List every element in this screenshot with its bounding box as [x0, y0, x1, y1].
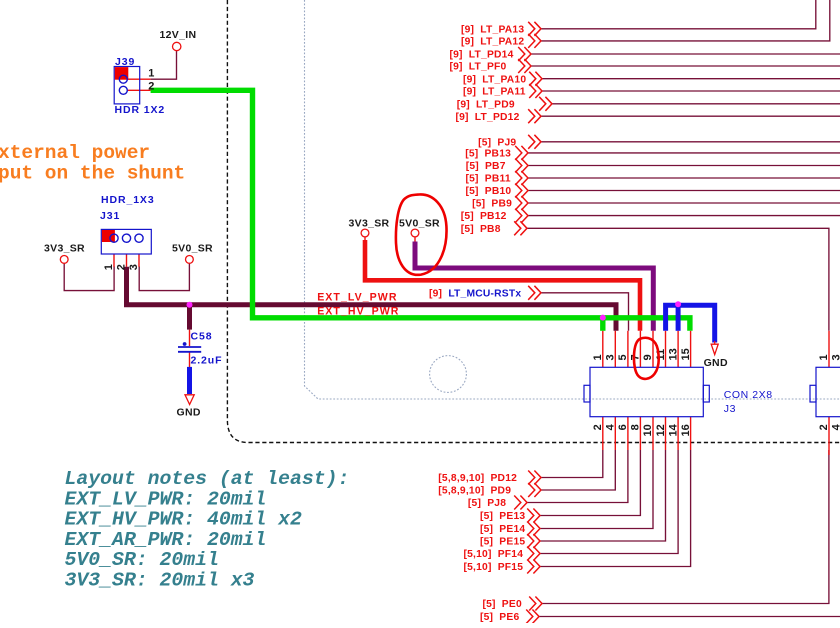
svg-text:J31: J31 — [100, 210, 120, 222]
svg-text:1: 1 — [148, 68, 154, 80]
svg-text:[9] LT_PD14: [9] LT_PD14 — [450, 50, 514, 61]
svg-text:10: 10 — [642, 424, 654, 436]
svg-text:put on the shunt: put on the shunt — [0, 163, 185, 185]
svg-text:15: 15 — [680, 348, 692, 360]
svg-text:[5] PE13: [5] PE13 — [480, 511, 525, 522]
svg-text:[9] LT_PA12: [9] LT_PA12 — [461, 37, 524, 48]
svg-text:7: 7 — [630, 354, 642, 360]
svg-text:1: 1 — [103, 264, 115, 270]
svg-text:3: 3 — [128, 264, 140, 270]
svg-text:14: 14 — [667, 423, 679, 436]
svg-text:12: 12 — [655, 424, 667, 436]
svg-text:[9] LT_PD9: [9] LT_PD9 — [457, 99, 515, 110]
svg-text:3V3_SR: 3V3_SR — [44, 243, 85, 255]
svg-text:EXT_HV_PWR: 40mil x2: EXT_HV_PWR: 40mil x2 — [65, 509, 303, 531]
svg-text:[5] PE15: [5] PE15 — [480, 537, 525, 548]
svg-text:[5] PE0: [5] PE0 — [483, 599, 522, 610]
svg-text:3V3_SR: 20mil x3: 3V3_SR: 20mil x3 — [65, 570, 255, 592]
svg-text:GND: GND — [177, 407, 201, 419]
svg-text:5V0_SR: 5V0_SR — [399, 218, 440, 230]
svg-text:[5] PB12: [5] PB12 — [461, 211, 507, 222]
svg-text:EXT_HV_PWR: EXT_HV_PWR — [317, 305, 399, 317]
svg-text:16: 16 — [680, 424, 692, 436]
svg-text:1: 1 — [818, 354, 830, 360]
svg-text:8: 8 — [630, 424, 642, 430]
svg-text:13: 13 — [667, 348, 679, 360]
svg-text:3V3_SR: 3V3_SR — [349, 218, 390, 230]
svg-text:xternal power: xternal power — [0, 142, 150, 164]
svg-text:HDR 1X2: HDR 1X2 — [115, 104, 166, 116]
svg-text:2: 2 — [116, 264, 128, 270]
svg-text:11: 11 — [655, 349, 667, 361]
svg-text:2: 2 — [592, 424, 604, 430]
svg-text:EXT_LV_PWR: 20mil: EXT_LV_PWR: 20mil — [65, 488, 267, 510]
svg-text:[5] PE14: [5] PE14 — [480, 524, 525, 535]
svg-text:4: 4 — [831, 423, 840, 430]
svg-text:9: 9 — [642, 354, 654, 360]
svg-text:Layout notes (at least):: Layout notes (at least): — [65, 468, 350, 490]
svg-text:[5] PB11: [5] PB11 — [466, 174, 511, 185]
svg-text:[5,10] PF15: [5,10] PF15 — [464, 562, 524, 573]
svg-text:HDR_1X3: HDR_1X3 — [101, 194, 155, 206]
svg-text:J3: J3 — [724, 403, 736, 415]
svg-text:EXT_LV_PWR: EXT_LV_PWR — [317, 291, 397, 303]
svg-text:2: 2 — [818, 424, 830, 430]
svg-text:[9] LT_PA13: [9] LT_PA13 — [461, 24, 524, 35]
svg-text:[9] LT_PA11: [9] LT_PA11 — [463, 87, 526, 98]
svg-text:[9] LT_PD12: [9] LT_PD12 — [456, 112, 520, 123]
svg-text:12V_IN: 12V_IN — [160, 29, 197, 41]
svg-text:[5] PB9: [5] PB9 — [472, 199, 512, 210]
svg-text:[5,10] PF14: [5,10] PF14 — [464, 549, 524, 560]
svg-text:2: 2 — [148, 81, 154, 93]
svg-text:[5] PB10: [5] PB10 — [466, 186, 512, 197]
svg-text:[9] LT_MCU-RSTx: [9] LT_MCU-RSTx — [429, 288, 521, 299]
svg-text:1: 1 — [592, 354, 604, 360]
svg-text:GND: GND — [704, 357, 728, 369]
svg-text:J39: J39 — [115, 56, 135, 68]
svg-text:3: 3 — [831, 354, 840, 360]
svg-text:3: 3 — [605, 354, 617, 360]
svg-text:5V0_SR: 5V0_SR — [172, 243, 213, 255]
svg-text:EXT_AR_PWR: 20mil: EXT_AR_PWR: 20mil — [65, 529, 267, 551]
svg-text:[5] PE6: [5] PE6 — [480, 612, 519, 623]
svg-text:[5,8,9,10] PD12: [5,8,9,10] PD12 — [438, 473, 517, 484]
svg-text:2.2uF: 2.2uF — [191, 355, 223, 367]
svg-text:[9] LT_PF0: [9] LT_PF0 — [450, 62, 507, 73]
svg-text:[5] PB7: [5] PB7 — [466, 161, 506, 172]
svg-text:CON 2X8: CON 2X8 — [724, 389, 773, 401]
svg-text:C58: C58 — [191, 331, 213, 343]
svg-text:[5] PB8: [5] PB8 — [461, 224, 501, 235]
svg-text:[5] PJ8: [5] PJ8 — [468, 498, 506, 509]
svg-text:5: 5 — [617, 354, 629, 360]
svg-text:5V0_SR: 20mil: 5V0_SR: 20mil — [65, 549, 219, 571]
svg-text:6: 6 — [617, 424, 629, 430]
svg-text:[5] PJ9: [5] PJ9 — [478, 137, 516, 148]
svg-text:4: 4 — [605, 423, 617, 430]
svg-text:[5] PB13: [5] PB13 — [465, 149, 511, 160]
svg-text:[5,8,9,10] PD9: [5,8,9,10] PD9 — [438, 486, 511, 497]
svg-text:[9] LT_PA10: [9] LT_PA10 — [463, 74, 526, 85]
